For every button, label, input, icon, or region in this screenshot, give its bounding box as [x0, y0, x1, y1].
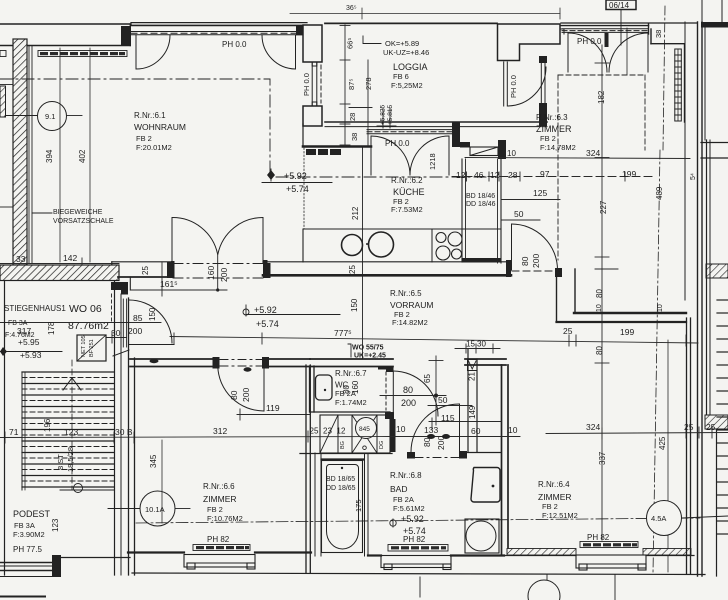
- loggia top wall line: [325, 22, 497, 24]
- svg-text:28: 28: [508, 170, 518, 180]
- svg-text:150: 150: [350, 298, 359, 312]
- 6.6 west wall: [128, 298, 130, 575]
- svg-text:F:5,25M2: F:5,25M2: [391, 81, 423, 90]
- svg-text:+5.95: +5.95: [18, 337, 40, 347]
- WC north wall: [310, 358, 393, 360]
- hatched wall left (Vorsatzschale): [13, 39, 27, 265]
- svg-text:06/14: 06/14: [609, 1, 630, 10]
- svg-text:+5.815: +5.815: [387, 105, 394, 125]
- pier wall below window: [303, 106, 322, 126]
- svg-text:PH 82: PH 82: [403, 535, 426, 544]
- svg-text:5⁴: 5⁴: [690, 173, 697, 180]
- svg-text:175: 175: [354, 499, 363, 512]
- svg-text:212: 212: [351, 206, 360, 220]
- svg-text:10: 10: [596, 304, 603, 312]
- level marker loggia sill: [377, 108, 396, 128]
- podest slab edge below: [0, 576, 52, 578]
- shaft dividers: [337, 415, 339, 453]
- stair flight edge: [21, 372, 23, 490]
- bad south wall jamb right: [459, 451, 467, 459]
- reference box 06/14: [606, 0, 636, 10]
- stove burners: [436, 233, 446, 243]
- svg-text:25: 25: [348, 265, 357, 274]
- party wall double line: [697, 22, 699, 576]
- svg-text:80: 80: [342, 385, 351, 394]
- kitchen sink bowl 1: [342, 235, 363, 256]
- svg-text:312: 312: [213, 426, 227, 436]
- wall segment right of bad door: [467, 452, 501, 454]
- wohnraum top wall with window: [131, 23, 307, 35]
- svg-text:BAD: BAD: [390, 484, 407, 494]
- svg-text:777⁵: 777⁵: [334, 328, 352, 338]
- svg-text:F:20.01M2: F:20.01M2: [136, 143, 172, 152]
- left edge hatch pier: [0, 86, 6, 117]
- svg-text:227: 227: [599, 200, 608, 214]
- shaft outer box: [320, 415, 390, 453]
- loggia east window jamb top: [539, 56, 547, 63]
- svg-text:BG: BG: [340, 441, 346, 449]
- dim line 80/200 horizontal: [380, 395, 446, 397]
- 6.4 east wall: [686, 318, 688, 574]
- bottom wall 6.6 east segment: [255, 551, 311, 553]
- svg-text:R.Nr.:6.8: R.Nr.:6.8: [390, 471, 422, 480]
- svg-text:PH 0.0: PH 0.0: [577, 37, 602, 46]
- wall connector: [129, 24, 131, 46]
- svg-text:317: 317: [17, 326, 31, 336]
- svg-text:30: 30: [111, 328, 121, 338]
- 6.4 window sill strip: [580, 542, 638, 548]
- neighbour wall below: [716, 429, 718, 576]
- top dimension line: [290, 8, 560, 19]
- svg-text:R.Nr.:6.6: R.Nr.:6.6: [203, 482, 235, 491]
- double door walking line: [217, 254, 219, 291]
- svg-text:10: 10: [396, 424, 406, 434]
- window sill strip left: [0, 51, 127, 57]
- svg-text:50: 50: [438, 395, 448, 405]
- svg-text:160: 160: [206, 266, 216, 280]
- svg-text:80: 80: [422, 437, 432, 447]
- corridor north wall main segment: [263, 261, 511, 263]
- 6.3 balcony door leaf left: [567, 33, 569, 72]
- WC south line: [310, 411, 390, 413]
- svg-text:133: 133: [424, 425, 438, 435]
- 6.6 window sill strip: [193, 545, 250, 551]
- neighbour hatch piece 2: [705, 415, 728, 429]
- 6.6 window bay: [184, 555, 255, 570]
- svg-text:845: 845: [359, 426, 370, 433]
- svg-text:10: 10: [508, 425, 518, 435]
- stairwell east wall: [114, 281, 116, 575]
- 6.3 top window band: [562, 29, 648, 33]
- SE nook wall vertical piece: [555, 268, 562, 277]
- position circle 9.1: [0, 115, 37, 117]
- 6.4 south hatch strip east: [643, 549, 691, 556]
- 6.3 NE wall step: [649, 24, 685, 123]
- vestibule dashed line: [111, 294, 113, 322]
- door center stop: [605, 33, 609, 47]
- 6.6 door arc: [218, 367, 264, 411]
- svg-text:FB 2: FB 2: [540, 134, 556, 143]
- 6.3 balcony door arc left: [568, 33, 607, 72]
- stair treads solid: [22, 372, 114, 487]
- door 6.3 from corridor: leaf: [511, 224, 513, 270]
- svg-text:30: 30: [477, 340, 486, 349]
- double door 160/200 dashed opening: [173, 264, 263, 279]
- svg-text:1218: 1218: [428, 153, 437, 170]
- bad door leaf: [411, 404, 459, 452]
- neighbour walls right edge: [701, 142, 728, 144]
- stair treads dashed: [22, 378, 114, 482]
- svg-text:ZIMMER: ZIMMER: [536, 124, 572, 134]
- svg-text:F:1.74M2: F:1.74M2: [335, 398, 367, 407]
- svg-text:+5.825: +5.825: [380, 105, 387, 125]
- entrance door leaf: [122, 299, 124, 347]
- dim line 10/133/60/10: [390, 436, 520, 438]
- svg-text:23: 23: [323, 427, 332, 436]
- 6.6 east wall: [305, 365, 307, 573]
- svg-text:VORRAUM: VORRAUM: [390, 300, 433, 310]
- bathtub inner: [326, 465, 358, 550]
- oval dim blob: [150, 359, 159, 363]
- wall lining 6.3 west: [503, 62, 505, 106]
- svg-text:200: 200: [219, 268, 229, 282]
- column axis line bottom: [546, 575, 548, 580]
- svg-text:402: 402: [78, 149, 87, 163]
- svg-text:FB 6: FB 6: [393, 72, 409, 81]
- svg-text:STIEGENHAUS1: STIEGENHAUS1: [4, 304, 66, 313]
- vestibule floor lines: [129, 344, 174, 346]
- dashed threshold 6.3 door: [512, 270, 557, 272]
- stair bottom tread circle: [74, 484, 83, 493]
- svg-text:97: 97: [540, 169, 550, 179]
- closet west wall: [467, 349, 469, 452]
- svg-text:ZIMMER: ZIMMER: [538, 492, 572, 502]
- svg-text:4.5A: 4.5A: [651, 514, 666, 523]
- neighbour wall verticals: [706, 140, 708, 422]
- door arc left entrance: [136, 35, 170, 69]
- svg-text:85: 85: [133, 313, 143, 323]
- 6.3 balcony door arc right: [609, 33, 648, 72]
- dash-dot vertical line right: [653, 150, 660, 573]
- svg-text:87.76m2: 87.76m2: [68, 320, 109, 332]
- svg-text:33: 33: [16, 254, 26, 264]
- window band wohnraum/loggia: [312, 62, 321, 106]
- dim 65 vertical: [435, 356, 437, 425]
- svg-text:NET 105: NET 105: [81, 335, 87, 357]
- kitchen door leaf left: [370, 136, 372, 175]
- svg-text:278: 278: [364, 77, 373, 90]
- main dim line 777.5: [170, 337, 698, 344]
- svg-text:324: 324: [586, 422, 600, 432]
- bathtub top wall line: [322, 458, 364, 460]
- svg-text:PH 0.0: PH 0.0: [302, 73, 311, 96]
- kitchen north wall: [303, 145, 371, 148]
- svg-text:199: 199: [620, 327, 634, 337]
- pier wall between wohnraum and loggia: [303, 25, 322, 62]
- svg-text:F:7.53M2: F:7.53M2: [391, 205, 423, 214]
- dim line 324/10: [465, 158, 690, 159]
- wohnraum south wall left segment: [112, 261, 172, 263]
- 6.3 top wall: [561, 22, 697, 24]
- svg-text:DD 18/65: DD 18/65: [326, 485, 356, 492]
- dash-dot vertical line right top: [663, 6, 665, 150]
- stair arrow: [63, 378, 81, 390]
- svg-text:149: 149: [468, 405, 477, 419]
- svg-text:R.Nr.:6.1: R.Nr.:6.1: [134, 111, 166, 120]
- svg-text:R.Nr.:6.5: R.Nr.:6.5: [390, 289, 422, 298]
- svg-text:F:3.90M2: F:3.90M2: [13, 530, 45, 539]
- double door arcs: [172, 217, 218, 254]
- stairwell west wall: [4, 281, 6, 575]
- 6.4 south hatch strip west: [507, 549, 576, 556]
- door leaf left entrance: [135, 35, 137, 69]
- svg-text:200: 200: [531, 254, 541, 268]
- WC sliding door dashed line: [385, 372, 387, 410]
- svg-text:80: 80: [520, 256, 530, 266]
- svg-text:FB 3A: FB 3A: [14, 521, 35, 530]
- bottom left corner line: [0, 596, 45, 598]
- kitchen counter outline: [303, 229, 501, 262]
- svg-text:FB 2: FB 2: [136, 134, 152, 143]
- svg-text:DD 18/46: DD 18/46: [466, 201, 496, 208]
- window jamb block right: [296, 25, 303, 35]
- tub niche west wall: [314, 453, 316, 556]
- bad window sill strip: [388, 545, 448, 552]
- 6.3 east wall line: [684, 22, 686, 300]
- kitchen east edge line: [362, 147, 364, 359]
- bottom outer line: [132, 573, 705, 575]
- svg-text:PH 0.0: PH 0.0: [385, 139, 410, 148]
- svg-text:18,5/28: 18,5/28: [66, 447, 75, 472]
- corridor south wall west segment: [130, 358, 213, 360]
- svg-text:R.Nr.:6.3: R.Nr.:6.3: [536, 113, 568, 122]
- kitchen window sill element: [306, 149, 341, 155]
- dim line 142: [0, 263, 119, 265]
- door nook arc: [393, 371, 438, 416]
- svg-text:199: 199: [622, 169, 636, 179]
- loggia parapet bottom: [325, 121, 547, 123]
- svg-text:F:10.76M2: F:10.76M2: [207, 514, 243, 523]
- shaft diagonals: [320, 415, 338, 453]
- svg-text:UK-UZ=+8.46: UK-UZ=+8.46: [383, 48, 429, 57]
- shaft pipe circle: [356, 418, 377, 439]
- Biegeweiche Vorsatzschale label: [32, 212, 52, 214]
- svg-text:160: 160: [351, 380, 360, 394]
- svg-text:BD 18/46: BD 18/46: [466, 193, 495, 200]
- svg-text:71: 71: [9, 427, 19, 437]
- svg-text:+5.92: +5.92: [284, 171, 307, 181]
- svg-text:80: 80: [403, 385, 413, 395]
- svg-text:8 ST: 8 ST: [56, 454, 65, 470]
- svg-text:PODEST: PODEST: [13, 509, 51, 519]
- svg-text:38: 38: [654, 30, 663, 38]
- svg-text:FB 2: FB 2: [542, 502, 558, 511]
- svg-text:394: 394: [45, 149, 54, 163]
- svg-text:WOHNRAUM: WOHNRAUM: [134, 122, 186, 132]
- dashed dim line 97: [452, 176, 653, 178]
- loggia east window jamb bottom: [539, 103, 547, 126]
- 6.4 bottom wall lines: [504, 555, 576, 557]
- 6.3 ceiling dashed line: [558, 74, 645, 76]
- entrance door arc: [129, 300, 172, 343]
- east window ladder strip: [675, 49, 682, 121]
- svg-text:196: 196: [43, 418, 52, 432]
- svg-text:60: 60: [471, 426, 481, 436]
- position circle 10.1A: [108, 508, 140, 510]
- door leaf right entrance: [295, 35, 297, 69]
- svg-text:125: 125: [533, 188, 547, 198]
- dim 50 line 6.3 door: [501, 219, 540, 221]
- svg-text:DG: DG: [379, 441, 385, 449]
- svg-text:489: 489: [655, 186, 664, 200]
- svg-text:142: 142: [63, 253, 77, 263]
- svg-text:119: 119: [266, 403, 280, 413]
- WC washbasin: [316, 375, 333, 400]
- door arc right entrance: [262, 35, 296, 69]
- kitchen sink bowl 2: [369, 232, 394, 257]
- svg-text:36⁵: 36⁵: [346, 5, 357, 12]
- vestibule wall top blocks: [111, 282, 128, 295]
- door arc loggia to 6.3: [508, 67, 547, 106]
- svg-text:WO 55/75: WO 55/75: [352, 345, 384, 352]
- bad bottom wall west: [368, 554, 381, 556]
- svg-text:28: 28: [348, 113, 357, 121]
- stove divider: [431, 229, 433, 262]
- level dash-dot line across lower rooms: [136, 518, 700, 523]
- dashed threshold bad door: [415, 457, 459, 459]
- 6.6 door leaf: [263, 367, 265, 411]
- svg-text:10: 10: [657, 304, 664, 312]
- door jamb blocks: [167, 262, 173, 278]
- corridor level marker: [246, 305, 340, 316]
- svg-text:LOGGIA: LOGGIA: [393, 62, 428, 72]
- left edge line: [0, 206, 13, 208]
- inner lining line: [28, 46, 30, 264]
- svg-text:F:5.61M2: F:5.61M2: [393, 504, 425, 513]
- 6.3 balcony door leaf right: [647, 33, 649, 72]
- podest edge line: [60, 489, 114, 491]
- door jambs 6.6: [213, 357, 220, 369]
- svg-text:ZIMMER: ZIMMER: [203, 494, 237, 504]
- long dim line y437: [0, 437, 390, 438]
- lift shaft box: [77, 335, 106, 361]
- svg-text:50: 50: [514, 209, 524, 219]
- stair walking line: [71, 360, 73, 490]
- svg-text:15: 15: [466, 340, 475, 349]
- svg-text:R.Nr.:6.7: R.Nr.:6.7: [335, 369, 367, 378]
- dim chain right of pier: vertical line: [340, 25, 372, 146]
- svg-text:12: 12: [490, 170, 500, 180]
- corner pier block: [121, 26, 131, 46]
- svg-text:+5.92: +5.92: [401, 514, 424, 524]
- kitchen door arc left: [371, 136, 410, 175]
- svg-text:21: 21: [468, 372, 477, 381]
- svg-text:178: 178: [47, 321, 56, 335]
- bad east wall: [501, 365, 503, 555]
- closet north wall line: [465, 358, 506, 360]
- neighbour stair treads: [717, 300, 728, 534]
- svg-text:+5.92: +5.92: [254, 305, 277, 315]
- svg-text:KÜCHE: KÜCHE: [393, 187, 425, 197]
- loggia NE wall white polygon: [498, 24, 561, 61]
- bathtub outer: [322, 461, 363, 553]
- axis line bottom right: [614, 575, 616, 600]
- svg-text:25: 25: [684, 422, 694, 432]
- WC east wall upper stub: [378, 366, 394, 372]
- bad bottom wall east: [451, 554, 504, 556]
- svg-text:200: 200: [436, 436, 446, 450]
- window jamb notch 6.3 top: [561, 28, 565, 30]
- WC door tag leader: [348, 344, 351, 357]
- washing machine: [465, 519, 499, 553]
- svg-text:80: 80: [595, 346, 604, 355]
- dim line 324 right: [546, 433, 728, 434]
- kitchen door arc right: [410, 136, 449, 175]
- WC east wall lower stub: [385, 412, 394, 419]
- position circle 4.5A: [647, 501, 682, 536]
- axis line below bad: [419, 577, 421, 597]
- svg-text:FB 2: FB 2: [207, 505, 223, 514]
- svg-text:F:14.82M2: F:14.82M2: [392, 318, 428, 327]
- ceiling recess dash-dot line wohnraum: [0, 79, 490, 177]
- balcony slab inner line: [0, 45, 130, 47]
- svg-text:BD 18/65: BD 18/65: [326, 476, 355, 483]
- svg-text:123: 123: [64, 427, 78, 437]
- WC east wall pier: [390, 419, 396, 452]
- svg-text:200: 200: [401, 398, 416, 408]
- leader from box: [620, 10, 622, 46]
- svg-text:+5.74: +5.74: [256, 319, 279, 329]
- 6.6 door dashed opening: [220, 359, 262, 361]
- tub niche east line: [364, 453, 366, 556]
- svg-text:182: 182: [597, 90, 606, 104]
- svg-text:PH 77.5: PH 77.5: [13, 545, 42, 554]
- column circle bottom: [528, 580, 560, 600]
- loggia leader pointer: [363, 36, 381, 44]
- svg-text:25: 25: [563, 326, 573, 336]
- wohnraum interior vertical dim lines: [59, 48, 61, 262]
- duct bottom closure: [462, 258, 501, 263]
- svg-text:F:12.51M2: F:12.51M2: [542, 511, 578, 520]
- svg-text:65: 65: [423, 374, 432, 383]
- svg-text:+5.74: +5.74: [286, 184, 309, 194]
- svg-text:OK=+5.89: OK=+5.89: [385, 39, 419, 48]
- 6.4 window bay: [576, 555, 646, 570]
- svg-text:46: 46: [474, 170, 484, 180]
- vertical dim line x602: [595, 45, 618, 540]
- svg-text:PH 82: PH 82: [207, 535, 230, 544]
- svg-text:66⁵: 66⁵: [346, 38, 355, 49]
- svg-text:80: 80: [595, 289, 604, 298]
- vertical dashed lines 6.4: [626, 28, 628, 75]
- svg-text:161⁵: 161⁵: [160, 279, 178, 289]
- svg-text:425: 425: [658, 436, 667, 450]
- svg-text:VORSATZSCHALE: VORSATZSCHALE: [53, 218, 114, 225]
- svg-text:R.Nr.:6.4: R.Nr.:6.4: [538, 480, 570, 489]
- svg-text:337: 337: [598, 451, 607, 465]
- dim line 125: [501, 199, 560, 201]
- svg-text:BIEGEWEICHE: BIEGEWEICHE: [53, 209, 103, 216]
- svg-text:PH 82: PH 82: [587, 533, 610, 542]
- svg-text:80: 80: [229, 390, 239, 400]
- bad door jamb piece: [407, 452, 415, 459]
- hatched wall band west corridor: [0, 265, 119, 281]
- svg-text:30 B: 30 B: [115, 427, 133, 437]
- door nook leaf: [392, 371, 394, 416]
- svg-text:200: 200: [128, 326, 142, 336]
- svg-text:12: 12: [456, 170, 466, 180]
- ventilation box: [468, 360, 478, 371]
